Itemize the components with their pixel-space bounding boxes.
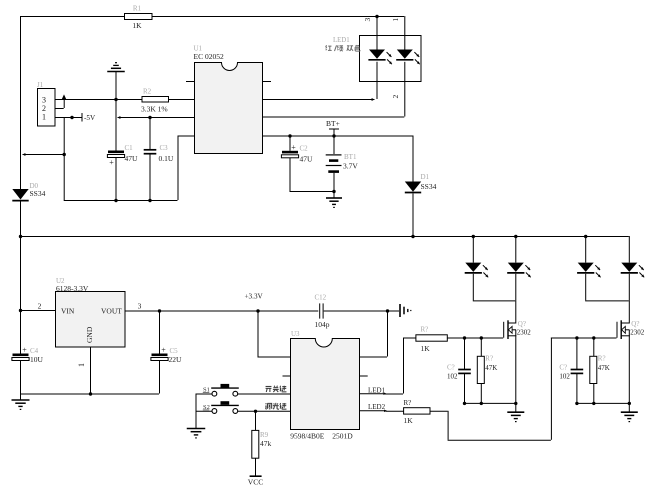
label Q-A value 2302	[517, 329, 532, 337]
svg-text:-5V: -5V	[84, 114, 96, 122]
junction C1 / bottom rail	[114, 199, 117, 202]
svg-text:47k: 47k	[260, 439, 272, 448]
svg-text:9598/4B0E: 9598/4B0E	[290, 432, 325, 441]
svg-text:LED2: LED2	[368, 403, 386, 411]
wire bottom rail of input stage	[64, 200, 178, 202]
svg-text:J1: J1	[37, 81, 44, 89]
label C5 value 22U	[169, 355, 183, 364]
wire VIN pin 2	[20, 310, 55, 312]
capacitor C1 (polarized)	[107, 151, 124, 158]
wire C2 bottom to battery node	[290, 158, 334, 192]
svg-text:2302: 2302	[517, 329, 532, 337]
ground under battery	[326, 198, 342, 207]
resistor R9 vertical	[252, 411, 259, 458]
label C12 value 104p	[315, 320, 330, 329]
ground channel A	[507, 412, 524, 421]
label Q-B designator	[631, 320, 639, 328]
regulator U2 body	[56, 292, 126, 348]
junction gnd side / U3 pin	[386, 309, 389, 312]
LED D-Ab	[507, 263, 531, 301]
ground bottom-left	[12, 400, 30, 409]
svg-text:10U: 10U	[30, 355, 44, 364]
label U2 designator	[56, 277, 65, 285]
label R47-A designator	[485, 355, 493, 363]
pin stub U1 right top	[263, 81, 272, 83]
svg-text:R?: R?	[404, 399, 412, 407]
resistor R7 1K	[404, 408, 430, 414]
junction on J1 pin1 wire	[70, 116, 73, 119]
resistor R1	[125, 14, 153, 20]
wire S2 left	[196, 410, 213, 412]
resistor R47-B 47K	[590, 338, 597, 403]
svg-text:22U: 22U	[169, 355, 183, 364]
net label BT+	[326, 119, 340, 136]
svg-text:VOUT: VOUT	[101, 307, 122, 316]
wire U1 to LED1 pin2	[263, 82, 405, 118]
label R2 designator	[143, 88, 152, 96]
wire S1 left	[196, 393, 213, 395]
svg-text:EC 02052: EC 02052	[194, 52, 224, 61]
junction C-B bottom	[575, 402, 578, 405]
label U2 value 6128-3.3V	[56, 284, 89, 293]
label U3 value 9598/4B0E	[290, 432, 325, 441]
wire U1 to LED1 pin4 with arrow	[263, 82, 378, 102]
junction D1 / bus	[411, 235, 414, 238]
label C4 plus	[22, 346, 27, 355]
wire LED string B right drop	[628, 236, 630, 263]
wire +3.3V down to U3 pin	[258, 311, 291, 358]
label D1 designator	[421, 173, 430, 181]
label U3 value 2501D	[332, 432, 353, 441]
label U2 GND rotated	[85, 326, 94, 343]
ground sideways right of C12	[400, 304, 411, 317]
svg-text:+: +	[109, 158, 114, 167]
diode D1	[405, 136, 421, 237]
label D0 value SS34	[30, 189, 46, 198]
svg-text:VCC: VCC	[248, 478, 263, 487]
label BT1 value 3.7V	[343, 162, 358, 171]
junction C3 / bottom rail	[148, 199, 151, 202]
junction source B	[628, 402, 631, 405]
label U1 value EC 02052	[194, 52, 224, 61]
svg-text:+: +	[22, 346, 27, 355]
label U2 VOUT	[101, 307, 122, 316]
wire stub to left rail with arrow	[23, 153, 64, 156]
svg-text:3: 3	[363, 18, 372, 22]
label J1 designator	[37, 81, 44, 89]
label LED1 red/green dual color (CJK)	[326, 45, 361, 51]
label R9 value 47k	[260, 439, 272, 448]
wire C3 bottom lead	[149, 154, 151, 200]
svg-text:C12: C12	[315, 294, 327, 302]
svg-text:47K: 47K	[485, 364, 497, 372]
junction C-A tap	[463, 336, 466, 339]
wire LED string A left drop	[472, 236, 474, 263]
label C-A designator	[447, 364, 455, 372]
junction source A	[514, 402, 517, 405]
LED D-Ba	[577, 263, 601, 301]
junction left rail / bus	[19, 235, 22, 238]
wire source node B	[576, 402, 628, 404]
wire cathode join A	[473, 300, 516, 302]
arrow at J1 pin3 junction	[62, 94, 67, 99]
svg-text:3.7V: 3.7V	[343, 162, 358, 171]
pin 1 of J1	[42, 113, 46, 122]
label C5 plus	[161, 346, 166, 355]
svg-text:2302: 2302	[630, 329, 645, 337]
svg-text:1: 1	[391, 18, 400, 22]
wire C1 bottom lead	[115, 158, 117, 201]
wire top rail horizontal	[20, 16, 404, 18]
label R7 designator	[404, 399, 412, 407]
wire -5V net to U1 with arrow	[118, 116, 195, 119]
label R47-B designator	[598, 355, 606, 363]
label R1 value 1K	[132, 21, 142, 30]
junction C-A bottom	[463, 402, 466, 405]
svg-text:0.1U: 0.1U	[159, 154, 174, 163]
junction C5 top	[158, 309, 161, 312]
LED D-Bb	[621, 263, 645, 301]
label Q-A designator	[518, 320, 526, 328]
label C-A value 102	[447, 373, 458, 381]
pin stub U1 left top	[186, 81, 195, 83]
svg-text:1K: 1K	[404, 416, 414, 425]
svg-text:C3: C3	[160, 144, 169, 152]
wire U3 LED1 output	[359, 338, 403, 396]
svg-text:C1: C1	[125, 144, 134, 152]
svg-text:1K: 1K	[132, 21, 142, 30]
capacitor C12 (series on line)	[320, 303, 323, 318]
connector J1	[38, 89, 56, 127]
label C-B value 102	[559, 373, 570, 381]
svg-text:SS34: SS34	[421, 182, 437, 191]
svg-text:3.3K 1%: 3.3K 1%	[141, 105, 168, 114]
label C3 value 0.1U	[159, 154, 174, 163]
net label LED1 at U3	[368, 386, 386, 394]
pin 2 of J1	[42, 104, 46, 113]
capacitor C-B 102	[571, 338, 584, 403]
junction R47-A bottom	[480, 402, 483, 405]
svg-text:LED1: LED1	[368, 386, 386, 394]
svg-text:C?: C?	[559, 364, 567, 372]
label S2 designator	[203, 404, 210, 411]
label C4 value 10U	[30, 355, 44, 364]
resistor R-gate-A 1K	[416, 335, 447, 341]
wire J1 pin3 to R2 line	[55, 99, 142, 101]
label C5 designator	[170, 347, 179, 355]
capacitor C3	[144, 150, 157, 154]
svg-text:R1: R1	[133, 5, 142, 13]
svg-text:+: +	[161, 346, 166, 355]
net label +3.3V	[245, 293, 264, 301]
dual LED LED1 box	[360, 36, 422, 82]
label R2 value 3.3K 1%	[141, 105, 168, 114]
switch S1	[211, 384, 239, 396]
junction bus / LED string A right	[514, 235, 517, 238]
label C1 plus	[109, 158, 114, 167]
junction R9 tap on dim-key wire	[254, 410, 257, 413]
junction R47-A tap	[480, 336, 483, 339]
svg-text:C4: C4	[30, 347, 39, 355]
wire LED string B left drop	[585, 236, 587, 263]
svg-text:R9: R9	[260, 431, 269, 439]
wire VOUT pin 3 to +3.3V line	[125, 310, 399, 312]
LED element left in LED1	[368, 35, 392, 81]
power flag VCC	[248, 476, 263, 486]
svg-text:2: 2	[38, 302, 42, 311]
wire C5 bottom lead	[159, 361, 161, 394]
wire source node A	[464, 402, 515, 404]
resistor R47-A 47K	[477, 338, 484, 403]
label C2 designator	[300, 145, 309, 153]
resistor R2	[142, 97, 169, 103]
label U2 pin 3	[138, 302, 142, 311]
wire R9 to VCC	[255, 458, 257, 475]
junction bus / LED string B left	[584, 235, 587, 238]
pin 3 of J1	[42, 96, 46, 105]
wire U1 to BT+ line	[263, 135, 413, 137]
wire up to U1 pin	[178, 136, 195, 201]
capacitor C-A 102	[458, 338, 471, 403]
capacitor C4 (polarized)	[12, 354, 29, 361]
label LED1 pin 2	[391, 95, 400, 99]
net label LED2 at U3	[368, 403, 386, 411]
op-amp U1 body	[195, 63, 263, 154]
label LED1 pin 1	[391, 18, 400, 22]
wire bottom ground rail U2	[20, 393, 159, 395]
junction C-B tap	[575, 336, 578, 339]
ground under switches	[187, 429, 206, 438]
diode D0	[12, 189, 28, 201]
label C3 designator	[160, 144, 169, 152]
wire gate line A	[447, 337, 503, 339]
wire gnd down to U3 pin	[359, 311, 387, 358]
svg-text:2501D: 2501D	[332, 432, 353, 441]
label R7 value 1K	[404, 416, 414, 425]
wire drain B	[628, 300, 630, 322]
wire J1 pin1 to -5V flag	[55, 117, 82, 119]
label R1 designator	[133, 5, 142, 13]
wire gate line B	[551, 337, 617, 339]
wire S2 right to U3 dim-key pin	[238, 410, 291, 412]
svg-text:C2: C2	[300, 145, 309, 153]
svg-text:+: +	[291, 143, 296, 152]
wire C3 top lead	[149, 117, 151, 149]
wire C4 bottom lead	[20, 361, 22, 394]
svg-text:R2: R2	[143, 88, 152, 96]
svg-text:C5: C5	[170, 347, 179, 355]
label Q-B value 2302	[630, 329, 645, 337]
capacitor C2 (polarized)	[281, 136, 298, 158]
junction BT1 top	[332, 134, 335, 137]
label C2 value 47U	[300, 155, 314, 164]
label C1 value 47U	[125, 154, 139, 163]
svg-text:GND: GND	[85, 326, 94, 343]
switch S2	[211, 401, 239, 413]
label LED1 pin 3	[363, 18, 372, 22]
junction +3.3V / U3 vdd	[256, 309, 259, 312]
svg-text:+3.3V: +3.3V	[245, 293, 264, 301]
svg-text:R?: R?	[421, 326, 429, 334]
wire J1 pin2 jog up	[55, 99, 64, 109]
svg-text:Q?: Q?	[518, 320, 526, 328]
wire LED1 pin3 to top rail	[376, 16, 378, 35]
wire left rail lower segment	[20, 202, 22, 237]
LED D-Aa	[465, 263, 489, 301]
label D0 designator	[30, 182, 39, 190]
svg-text:BT+: BT+	[326, 119, 340, 128]
wire GND pin 1 down	[90, 347, 92, 394]
wire rail to ground symbol	[20, 394, 22, 400]
junction C3 top	[148, 116, 151, 119]
wire left rail to VIN region	[20, 236, 22, 354]
junction LED1 pin3 / top rail	[375, 15, 378, 18]
transistor Q-B 2302	[617, 320, 630, 403]
label R9 designator	[260, 431, 269, 439]
svg-text:2: 2	[391, 95, 400, 99]
junction J1 vertical / rail stub	[62, 153, 65, 156]
svg-text:D1: D1	[421, 173, 430, 181]
label LED1 designator	[333, 37, 350, 44]
label C1 designator	[125, 144, 134, 152]
svg-text:47K: 47K	[598, 364, 610, 372]
ground channel B	[621, 412, 638, 421]
label C2 plus	[291, 143, 296, 152]
wire LED1 pin1 to top rail	[404, 16, 406, 35]
svg-text:Q?: Q?	[631, 320, 639, 328]
svg-text:SS34: SS34	[30, 189, 46, 198]
label R-gate-A value 1K	[421, 344, 431, 353]
label U3 designator	[291, 330, 300, 338]
junction rail / VIN wire	[19, 309, 22, 312]
svg-text:1K: 1K	[421, 344, 431, 353]
svg-text:102: 102	[447, 373, 458, 381]
wire cathode join B	[585, 300, 629, 302]
pin stub U3 right	[359, 375, 368, 377]
wire S1/S2 common vertical	[195, 394, 197, 429]
label C12 designator	[315, 294, 327, 302]
label R47-A value 47K	[485, 364, 497, 372]
svg-text:BT1: BT1	[344, 153, 357, 161]
svg-text:C?: C?	[447, 364, 455, 372]
label R-gate-A designator	[421, 326, 429, 334]
wire source to ground B	[628, 403, 630, 412]
label U2 pin 1 rotated	[77, 363, 86, 367]
label R47-B value 47K	[598, 364, 610, 372]
label C-B designator	[559, 364, 567, 372]
svg-text:U3: U3	[291, 330, 300, 338]
wire R2 to U1	[169, 99, 195, 101]
svg-text:VIN: VIN	[61, 307, 75, 316]
junction R47-B tap	[592, 336, 595, 339]
svg-text:1: 1	[77, 363, 86, 367]
power flag -5V	[82, 113, 96, 122]
wire drain A	[515, 300, 517, 322]
svg-text:R?: R?	[598, 355, 606, 363]
svg-text:6128-3.3V: 6128-3.3V	[56, 284, 89, 293]
junction battery bottom node	[332, 190, 335, 193]
junction bus / LED string A left	[472, 235, 475, 238]
junction R47-B bottom	[592, 402, 595, 405]
wire to gate resistor A	[403, 337, 416, 339]
label S1 designator	[203, 387, 210, 394]
wire LED string A right drop	[515, 236, 517, 263]
battery BT1	[326, 136, 342, 198]
label C4 designator	[30, 347, 39, 355]
label U1 designator	[194, 45, 203, 53]
IC U3 body	[291, 339, 360, 430]
transistor Q-A 2302	[504, 320, 517, 403]
junction C2 top	[288, 134, 291, 137]
pin stub U3 left	[283, 375, 291, 377]
svg-text:47U: 47U	[300, 155, 314, 164]
svg-text:47U: 47U	[125, 154, 139, 163]
svg-text:1: 1	[42, 113, 46, 122]
svg-text:104p: 104p	[315, 320, 330, 329]
svg-text:3: 3	[138, 302, 142, 311]
svg-text:LED1: LED1	[333, 37, 350, 44]
label U2 pin 2	[38, 302, 42, 311]
wire power bus horizontal	[20, 236, 629, 238]
svg-text:R?: R?	[485, 355, 493, 363]
junction GND pin / bottom rail	[89, 392, 92, 395]
wire U3 LED2 output	[359, 410, 404, 413]
svg-text:102: 102	[559, 373, 570, 381]
label U2 VIN	[61, 307, 75, 316]
ground top (inverted)	[107, 63, 125, 151]
wire source to ground A	[515, 403, 517, 412]
LED element right in LED1	[396, 35, 420, 81]
label dim-key (CJK)	[265, 403, 286, 409]
junction ground stem / R2 line	[114, 98, 117, 101]
wire left rail upper segment	[20, 16, 22, 189]
wire S1 right to U3 switch-key pin	[238, 393, 291, 395]
label switch-key (CJK)	[266, 386, 287, 392]
label D1 value SS34	[421, 182, 437, 191]
capacitor C5 (polarized)	[151, 311, 168, 361]
label BT1 designator	[344, 153, 357, 161]
wire J1 vertical down	[63, 117, 65, 200]
wire LED2 routing to channel B	[430, 338, 551, 441]
